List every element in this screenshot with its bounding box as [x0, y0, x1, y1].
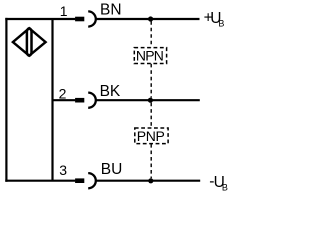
svg-text:3: 3: [59, 162, 67, 178]
svg-text:B: B: [222, 183, 228, 193]
svg-text:PNP: PNP: [137, 128, 165, 144]
svg-text:2: 2: [59, 85, 67, 101]
svg-text:BK: BK: [100, 83, 121, 100]
svg-text:BN: BN: [100, 2, 122, 19]
svg-text:B: B: [218, 19, 224, 29]
svg-text:BU: BU: [101, 161, 123, 178]
svg-text:NPN: NPN: [136, 47, 164, 63]
svg-text:1: 1: [60, 3, 68, 19]
